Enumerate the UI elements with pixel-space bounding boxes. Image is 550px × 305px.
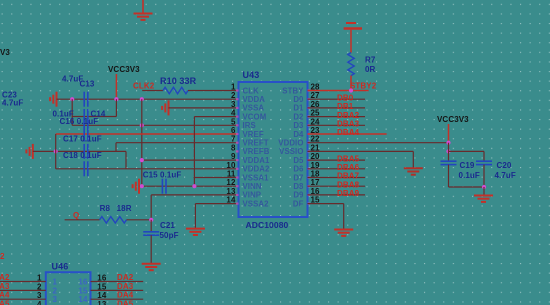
op-amp U43 body (ADC10080): [239, 82, 308, 217]
svg-text:VDDA1: VDDA1: [243, 156, 270, 165]
svg-text:1: 1: [53, 278, 58, 287]
svg-text:2: 2: [0, 252, 5, 261]
svg-text:18R: 18R: [117, 204, 132, 213]
svg-text:V3: V3: [0, 48, 10, 57]
wire D6 net: [308, 168, 366, 170]
wire VDDA2 row: [56, 168, 239, 170]
wire node to C21: [150, 220, 152, 232]
wire R10 to CLK: [188, 90, 239, 92]
svg-text:14: 14: [78, 295, 88, 304]
capacitor C18: [84, 144, 88, 159]
svg-text:DB0: DB0: [337, 93, 354, 102]
wire to ground: [483, 187, 485, 196]
capacitor C21: [143, 232, 159, 235]
capacitor C17: [84, 127, 88, 142]
svg-text:3: 3: [231, 100, 236, 109]
wire VSSA row: [169, 107, 239, 109]
wire DF drop: [343, 204, 345, 230]
svg-text:DA4: DA4: [0, 291, 10, 300]
svg-text:4: 4: [37, 300, 42, 305]
wire U46 left pin 3: [0, 298, 46, 300]
wire VCOM row: [194, 116, 238, 118]
wire VREF row (highlighted): [56, 133, 239, 135]
svg-text:VDDA2: VDDA2: [243, 165, 270, 174]
wire VSSA2 drop: [194, 204, 196, 229]
svg-text:C20: C20: [497, 161, 512, 170]
wire bar to R7: [350, 30, 352, 53]
svg-text:16: 16: [97, 274, 107, 283]
svg-text:DBA6: DBA6: [337, 163, 360, 172]
svg-text:D3: D3: [293, 121, 304, 130]
svg-text:CLK2: CLK2: [133, 82, 155, 91]
wire IRS row: [72, 124, 238, 126]
svg-text:U43: U43: [243, 70, 260, 80]
ground (VSSA2): [186, 229, 205, 235]
ground (top): [134, 14, 153, 20]
wire U46 left pin 1: [0, 281, 46, 283]
power bar symbol (R7 top): [344, 27, 362, 30]
junction: [114, 97, 118, 101]
svg-text:U46: U46: [52, 262, 69, 272]
svg-text:DBA3: DBA3: [337, 120, 360, 129]
svg-text:D7: D7: [293, 173, 303, 182]
ground (VDDA rail, rotated left): [50, 92, 56, 107]
junction: [54, 149, 58, 153]
wire D8 net: [308, 185, 366, 187]
wire VSSA2 row: [195, 203, 238, 205]
wire VSSA1 row: [194, 177, 239, 179]
svg-text:C13: C13: [80, 80, 95, 89]
wire D4 net: [308, 133, 387, 135]
wire U46 right pin 14: [91, 298, 144, 300]
junction: [446, 141, 450, 145]
svg-text:D9: D9: [293, 191, 304, 200]
svg-text:VINP: VINP: [243, 191, 262, 200]
wire D3 net: [308, 124, 366, 126]
wire U46 right pin 16: [91, 281, 144, 283]
svg-text:3: 3: [53, 295, 58, 304]
svg-text:C21: C21: [160, 221, 175, 230]
svg-text:15: 15: [97, 282, 107, 291]
ground (VSSA, rotated left): [162, 100, 168, 115]
wire C21 to ground: [150, 235, 152, 264]
wire DF row: [308, 203, 344, 205]
svg-text:4.7uF: 4.7uF: [2, 99, 23, 108]
svg-text:5: 5: [231, 117, 236, 126]
svg-text:VDDIO: VDDIO: [278, 139, 303, 148]
svg-text:DF: DF: [293, 199, 304, 208]
wire D9 net: [308, 194, 366, 196]
svg-text:VSSA: VSSA: [243, 104, 265, 113]
svg-text:D6: D6: [293, 165, 304, 174]
wire D2 net: [308, 116, 366, 118]
svg-text:VCOM: VCOM: [243, 112, 267, 121]
resistor R7: [348, 53, 354, 76]
wire D0 net: [308, 98, 366, 100]
wire VREFB row: [33, 150, 126, 152]
wire D7 net: [308, 177, 366, 179]
IC U46 body: [46, 272, 91, 305]
junction: [140, 184, 144, 188]
svg-text:D0: D0: [293, 95, 304, 104]
svg-text:D2: D2: [293, 112, 304, 121]
svg-text:D4: D4: [293, 130, 304, 139]
junction: [192, 184, 196, 188]
ground (C21): [142, 264, 161, 270]
svg-text:6: 6: [231, 126, 236, 135]
resistor R10: [163, 87, 188, 93]
svg-text:DA3: DA3: [117, 282, 134, 291]
wire to top ground: [142, 0, 144, 14]
wire C14 row: [72, 116, 116, 118]
svg-text:DA2: DA2: [0, 273, 10, 282]
svg-text:DB1: DB1: [337, 102, 354, 111]
wire VSSIO row: [308, 150, 414, 152]
svg-text:2: 2: [37, 282, 42, 291]
wire VINP row: [151, 194, 238, 196]
svg-text:9: 9: [231, 152, 236, 161]
wire VCC3V3 right drop: [448, 124, 450, 143]
svg-text:2: 2: [231, 91, 236, 100]
wire VCC3V3 drop: [115, 74, 117, 99]
svg-text:1: 1: [37, 274, 42, 283]
svg-text:12: 12: [226, 178, 236, 187]
svg-text:VDDA: VDDA: [243, 95, 266, 104]
svg-text:STBY2: STBY2: [350, 81, 377, 90]
ground (VINN row, rotated left): [133, 179, 139, 194]
svg-text:VCC3V3: VCC3V3: [437, 115, 469, 124]
wire CLK2 to R10: [142, 90, 163, 92]
svg-text:VREFT: VREFT: [243, 139, 269, 148]
wire VDDIO row: [308, 142, 449, 144]
svg-text:C15 0.1uF: C15 0.1uF: [143, 171, 182, 180]
junction: [482, 185, 486, 189]
capacitor C14: [84, 109, 88, 124]
svg-text:4.7uF: 4.7uF: [495, 171, 516, 180]
wire R7 to STBY: [350, 76, 352, 91]
wire VREFT drop: [115, 143, 117, 152]
svg-text:DBA8: DBA8: [337, 180, 360, 189]
junction: [446, 149, 450, 153]
svg-text:D1: D1: [293, 104, 304, 113]
wire C20 bottom: [483, 165, 485, 187]
svg-text:VREF: VREF: [243, 130, 264, 139]
wire VDDA row: [57, 98, 239, 100]
wire left rail vertical: [55, 134, 57, 169]
wire U46 left pin 2: [0, 289, 46, 291]
svg-text:DBA5: DBA5: [337, 154, 360, 163]
svg-text:R7: R7: [365, 56, 376, 65]
junction: [140, 158, 144, 162]
svg-text:Q: Q: [73, 211, 79, 220]
capacitor C20: [476, 161, 492, 164]
wire cap top rail: [449, 150, 485, 152]
junction: [70, 97, 74, 101]
wire VSSIO drop: [412, 151, 414, 168]
wire VDDA1 row: [142, 159, 239, 161]
wire right branch vertical: [115, 99, 117, 116]
svg-text:DBA2: DBA2: [337, 111, 360, 120]
capacitor (bank, unlabeled): [84, 161, 88, 176]
svg-text:13: 13: [226, 187, 236, 196]
junction: [349, 88, 353, 92]
svg-text:DBA4: DBA4: [337, 128, 360, 137]
wire cap bottom rail: [449, 186, 485, 188]
pin connection ticks U43: [236, 89, 310, 204]
ground (VSSIO): [404, 168, 423, 174]
svg-text:DA5: DA5: [0, 300, 10, 305]
ground (C19/C20): [474, 196, 493, 202]
wire VCOM vertical: [193, 117, 195, 187]
resistor R8: [100, 217, 127, 223]
svg-text:C19: C19: [460, 161, 475, 170]
wire Q to R8: [65, 219, 100, 221]
capacitor C19: [441, 161, 457, 164]
wire VREFT row: [116, 142, 239, 144]
svg-text:14: 14: [97, 291, 107, 300]
svg-text:7: 7: [231, 135, 236, 144]
wire branch drop: [125, 151, 127, 168]
junction: [140, 97, 144, 101]
svg-text:ADC10080: ADC10080: [246, 220, 289, 230]
svg-text:R8: R8: [100, 204, 111, 213]
svg-text:3: 3: [37, 291, 42, 300]
svg-text:VSSA1: VSSA1: [243, 173, 270, 182]
svg-text:15: 15: [78, 286, 88, 295]
svg-text:8: 8: [231, 143, 236, 152]
wire VINN row: [139, 185, 239, 187]
svg-text:50pF: 50pF: [160, 231, 179, 240]
junction: [149, 218, 153, 222]
ground (VREFB, rotated left): [26, 144, 32, 159]
wire left branch vertical: [71, 99, 73, 125]
wire U46 right pin 15: [91, 289, 144, 291]
svg-text:CLK: CLK: [243, 86, 260, 95]
svg-text:10: 10: [226, 161, 236, 170]
svg-text:C16 0.1uF: C16 0.1uF: [60, 117, 99, 126]
svg-text:1: 1: [231, 83, 236, 92]
svg-text:2: 2: [53, 286, 58, 295]
ground (DF): [334, 230, 353, 236]
capacitor C16: [84, 118, 88, 133]
svg-text:VREFB: VREFB: [243, 147, 270, 156]
svg-text:VSSIO: VSSIO: [279, 147, 303, 156]
svg-text:DA2: DA2: [117, 273, 134, 282]
svg-text:DA3: DA3: [0, 282, 10, 291]
wire D5 net: [308, 159, 366, 161]
svg-text:4: 4: [231, 109, 236, 118]
wire rail to C20: [483, 151, 485, 161]
svg-text:11: 11: [227, 170, 236, 179]
svg-text:VCC3V3: VCC3V3: [108, 65, 140, 74]
svg-text:C17 0.1uF: C17 0.1uF: [63, 134, 102, 143]
junction: [140, 123, 144, 127]
wire C19 bottom: [448, 165, 450, 187]
capacitor C13: [84, 92, 88, 107]
svg-text:14: 14: [226, 196, 236, 205]
svg-text:VINN: VINN: [243, 182, 262, 191]
capacitor C15: [162, 179, 166, 194]
svg-text:0R: 0R: [365, 65, 376, 74]
svg-text:16: 16: [78, 278, 88, 287]
svg-text:D5: D5: [293, 156, 304, 165]
svg-text:R10 33R: R10 33R: [160, 76, 197, 86]
wire D1 net: [308, 107, 366, 109]
svg-text:DA5: DA5: [117, 300, 134, 305]
wire VINP drop: [150, 195, 152, 220]
svg-text:13: 13: [97, 300, 107, 305]
wire STBY row: [308, 90, 369, 92]
svg-text:VSSA2: VSSA2: [243, 199, 270, 208]
svg-text:0.1uF: 0.1uF: [459, 171, 480, 180]
svg-text:IRS: IRS: [243, 121, 256, 130]
svg-text:C18 0.1uF: C18 0.1uF: [63, 151, 102, 160]
svg-text:DA4: DA4: [117, 291, 134, 300]
svg-text:STBY: STBY: [282, 86, 304, 95]
wire VCC to C19: [448, 143, 450, 161]
wire VCC vertical rail: [141, 99, 143, 186]
svg-text:D8: D8: [293, 182, 304, 191]
svg-text:DBA7: DBA7: [337, 172, 360, 181]
wire R8 to node: [127, 219, 152, 221]
svg-text:DBA9: DBA9: [337, 189, 360, 198]
